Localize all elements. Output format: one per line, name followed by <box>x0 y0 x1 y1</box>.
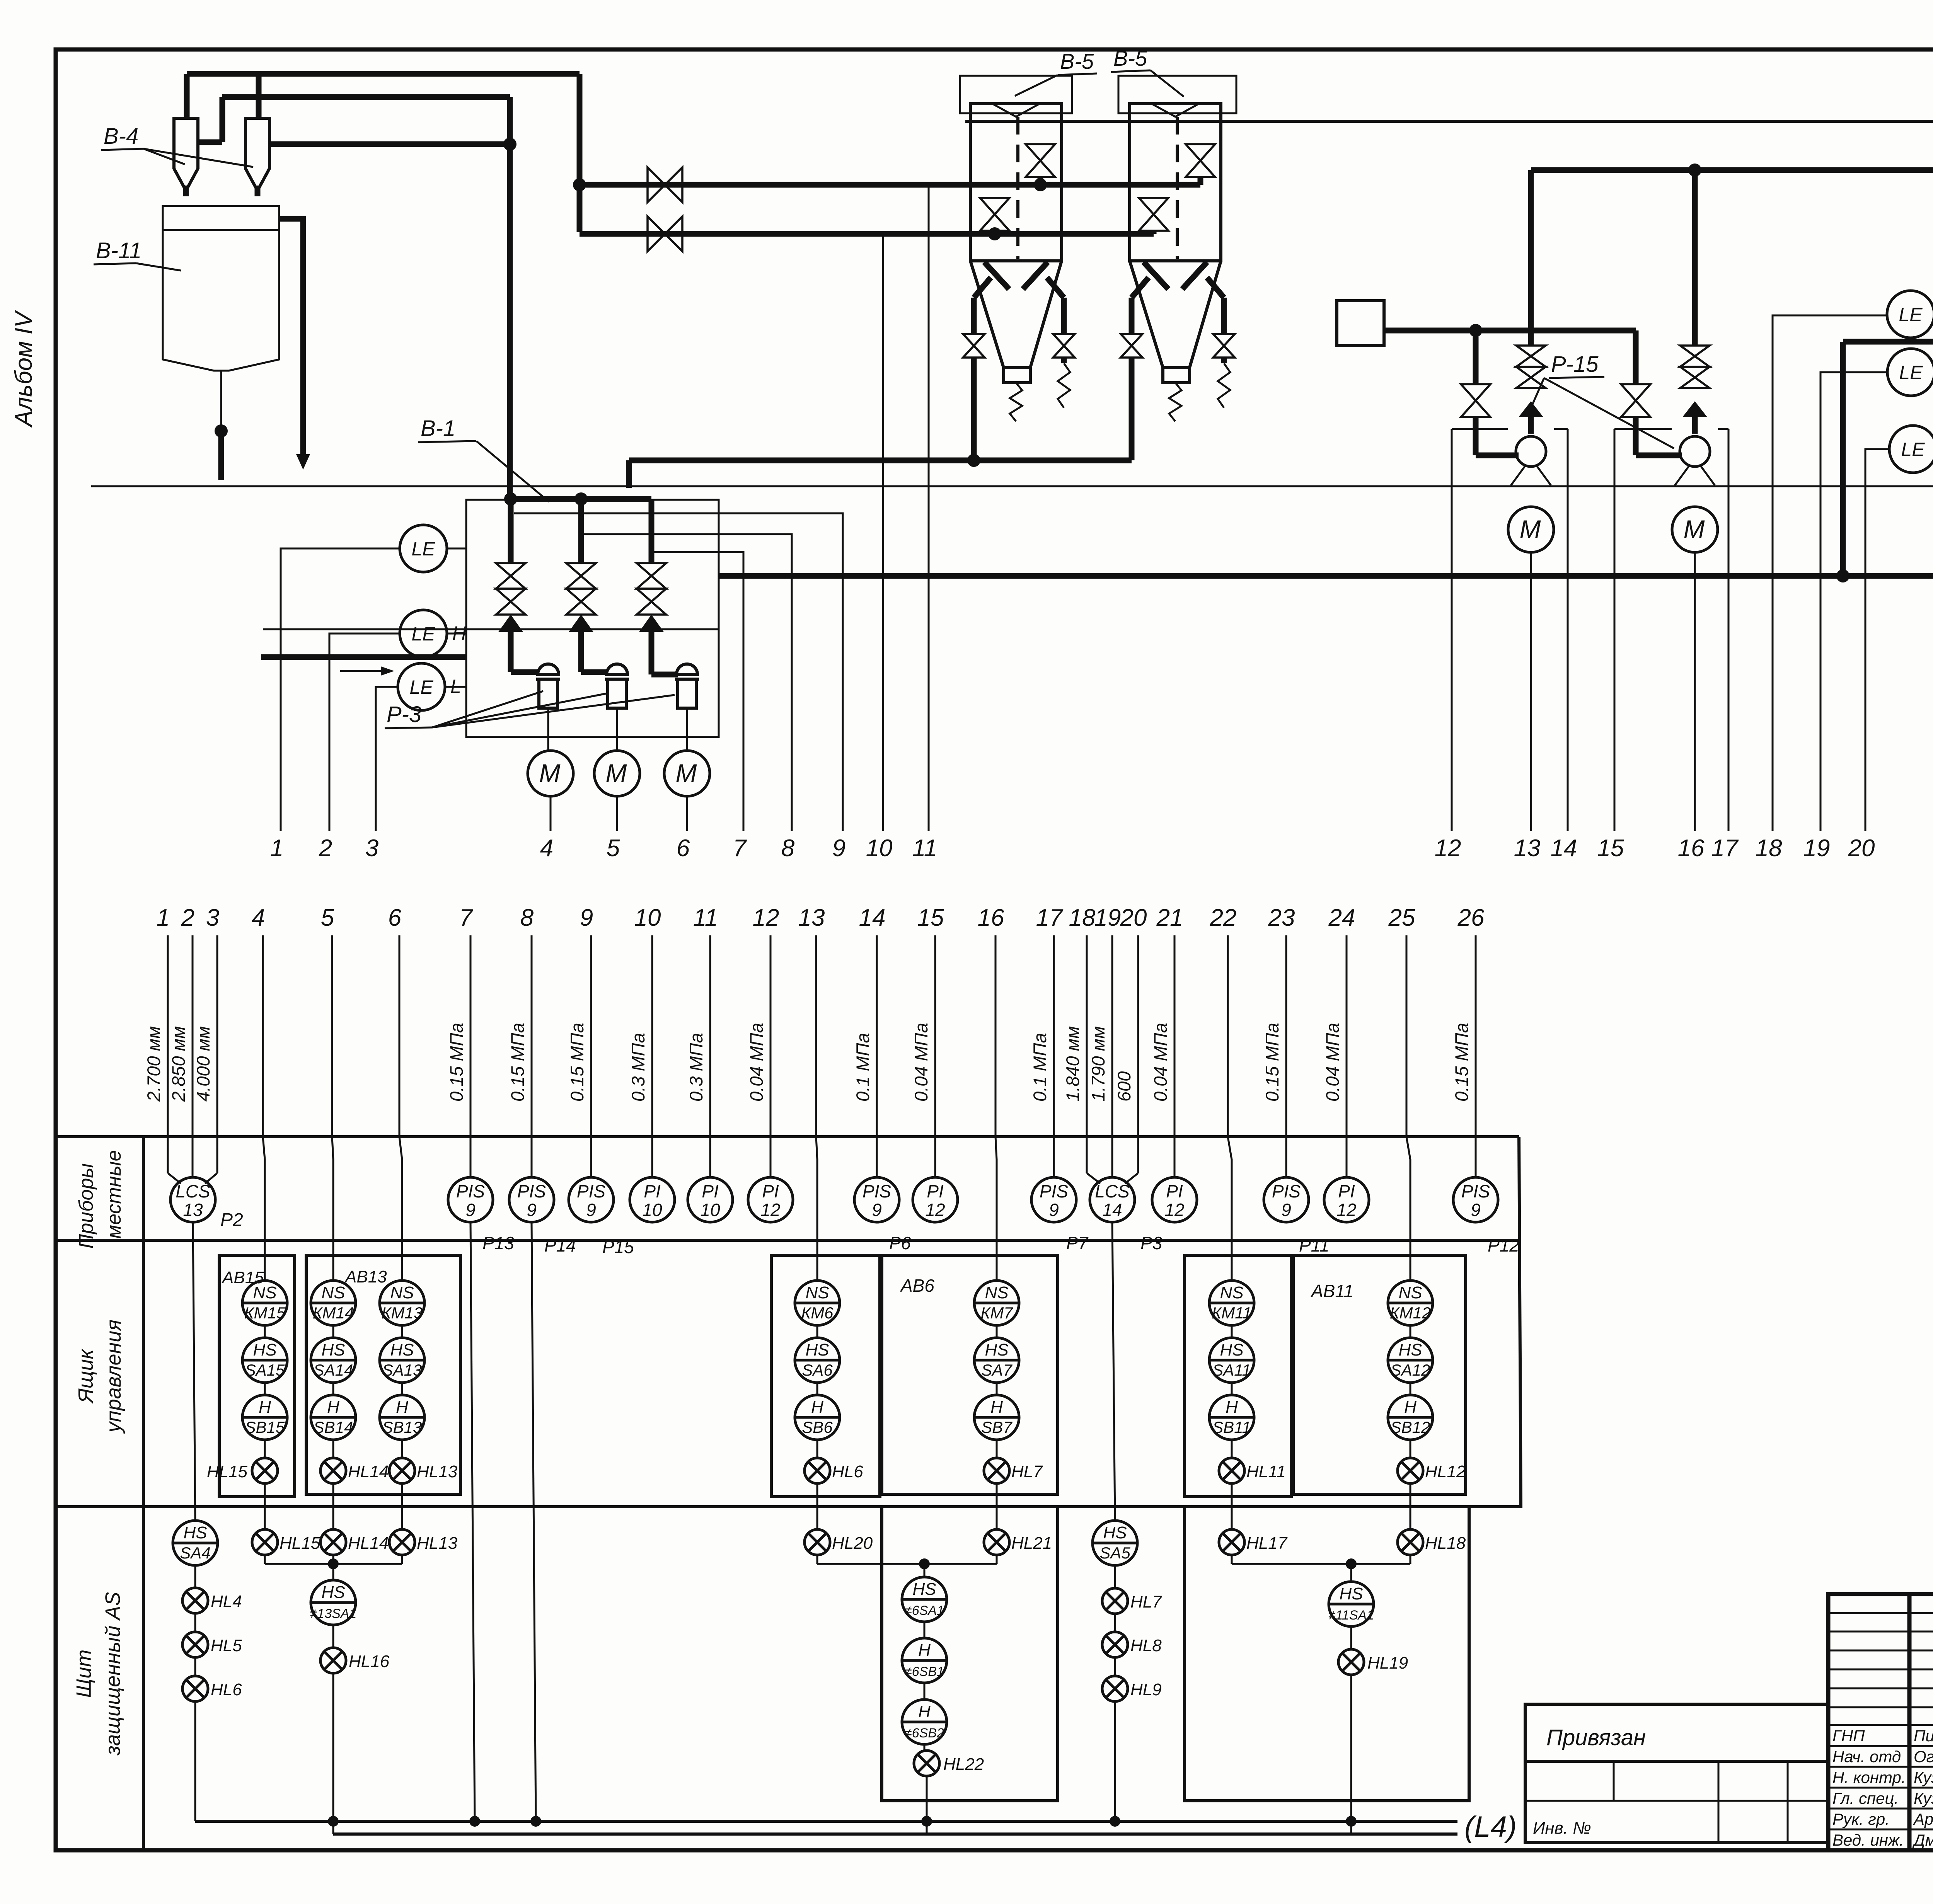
svg-text:HL15: HL15 <box>280 1534 320 1553</box>
svg-text:HL6: HL6 <box>211 1680 242 1699</box>
svg-text:PIS: PIS <box>1461 1181 1490 1201</box>
svg-text:LE: LE <box>411 538 435 560</box>
svg-text:5: 5 <box>607 835 620 862</box>
svg-text:HL13: HL13 <box>417 1534 458 1553</box>
svg-text:0.04 МПа: 0.04 МПа <box>1150 1023 1171 1102</box>
svg-text:Р2: Р2 <box>220 1210 243 1230</box>
svg-text:22: 22 <box>1210 904 1237 931</box>
svg-text:Р15: Р15 <box>602 1237 634 1257</box>
svg-text:24: 24 <box>1328 904 1355 931</box>
svg-text:Вед. инж.: Вед. инж. <box>1832 1831 1904 1849</box>
svg-text:Приборы: Приборы <box>75 1163 97 1249</box>
svg-text:10: 10 <box>642 1200 662 1220</box>
svg-text:местные: местные <box>103 1150 125 1238</box>
svg-text:18: 18 <box>1756 835 1782 862</box>
svg-text:HL7: HL7 <box>1130 1592 1162 1611</box>
svg-text:Нач. отд: Нач. отд <box>1832 1747 1901 1766</box>
svg-text:HL15: HL15 <box>207 1462 248 1481</box>
svg-text:Н: Н <box>259 1398 271 1417</box>
svg-text:2.850 мм: 2.850 мм <box>168 1026 189 1102</box>
svg-text:HL4: HL4 <box>211 1592 242 1611</box>
svg-text:1: 1 <box>157 904 170 931</box>
svg-text:КМ7: КМ7 <box>980 1304 1013 1322</box>
svg-text:Н: Н <box>918 1641 931 1660</box>
svg-text:NS: NS <box>1220 1283 1243 1302</box>
svg-text:2: 2 <box>319 835 332 862</box>
svg-text:HL17: HL17 <box>1246 1534 1288 1553</box>
svg-text:3: 3 <box>365 835 378 862</box>
svg-text:АВ13: АВ13 <box>344 1267 387 1286</box>
svg-text:0.04 МПа: 0.04 МПа <box>746 1023 767 1102</box>
svg-text:4: 4 <box>252 904 265 931</box>
svg-text:Привязан: Привязан <box>1546 1725 1646 1750</box>
svg-text:0.3 МПа: 0.3 МПа <box>686 1033 706 1102</box>
svg-text:КМ15: КМ15 <box>244 1304 286 1322</box>
svg-text:LE: LE <box>411 623 435 645</box>
svg-text:23: 23 <box>1268 904 1295 931</box>
svg-text:Щит: Щит <box>72 1650 95 1698</box>
svg-text:9: 9 <box>1471 1200 1481 1220</box>
svg-text:HS: HS <box>183 1523 207 1542</box>
svg-text:NS: NS <box>805 1283 829 1302</box>
svg-text:Р-15: Р-15 <box>1551 352 1599 377</box>
svg-text:HS: HS <box>805 1340 829 1359</box>
svg-text:9: 9 <box>1049 1200 1059 1220</box>
svg-text:КМ14: КМ14 <box>313 1304 354 1322</box>
svg-text:Н: Н <box>1404 1398 1417 1417</box>
svg-text:HL19: HL19 <box>1367 1654 1408 1672</box>
svg-text:SВ11: SВ11 <box>1212 1418 1251 1436</box>
svg-text:LCS: LCS <box>176 1181 210 1201</box>
svg-text:PI: PI <box>1338 1181 1355 1201</box>
svg-text:Р13: Р13 <box>482 1233 514 1253</box>
svg-text:M: M <box>676 759 697 787</box>
svg-text:HS: HS <box>1339 1584 1363 1603</box>
svg-text:Н: Н <box>396 1398 408 1417</box>
svg-text:4: 4 <box>540 835 553 862</box>
svg-text:0.15 МПа: 0.15 МПа <box>446 1023 467 1102</box>
svg-text:14: 14 <box>1551 835 1577 862</box>
svg-text:В-4: В-4 <box>104 124 138 149</box>
svg-text:14: 14 <box>859 904 886 931</box>
svg-text:0.15 МПа: 0.15 МПа <box>507 1023 528 1102</box>
svg-text:HS: HS <box>1103 1523 1127 1542</box>
svg-text:(L4): (L4) <box>1464 1810 1517 1843</box>
svg-text:LE: LE <box>1901 439 1925 460</box>
svg-text:HL21: HL21 <box>1011 1534 1052 1553</box>
svg-text:0.1 МПа: 0.1 МПа <box>852 1033 873 1102</box>
svg-text:Р11: Р11 <box>1299 1235 1329 1255</box>
svg-text:8: 8 <box>781 835 795 862</box>
svg-text:NS: NS <box>253 1283 276 1302</box>
svg-text:2: 2 <box>181 904 194 931</box>
svg-text:18: 18 <box>1069 904 1096 931</box>
svg-text:20: 20 <box>1848 835 1875 862</box>
svg-text:HS: HS <box>985 1340 1008 1359</box>
svg-text:19: 19 <box>1803 835 1830 862</box>
svg-text:13: 13 <box>183 1200 203 1220</box>
svg-text:Р6: Р6 <box>889 1233 911 1253</box>
svg-text:4.000 мм: 4.000 мм <box>193 1026 213 1102</box>
svg-text:HL5: HL5 <box>211 1636 242 1655</box>
svg-text:9: 9 <box>872 1200 882 1220</box>
svg-text:HL20: HL20 <box>832 1534 873 1553</box>
svg-text:NS: NS <box>321 1283 345 1302</box>
svg-text:Р7: Р7 <box>1066 1233 1089 1253</box>
svg-text:25: 25 <box>1388 904 1415 931</box>
svg-text:0.04 МПа: 0.04 МПа <box>911 1023 931 1102</box>
svg-text:0.3 МПа: 0.3 МПа <box>628 1033 648 1102</box>
svg-text:АВ6: АВ6 <box>900 1276 934 1296</box>
svg-text:19: 19 <box>1094 904 1121 931</box>
svg-text:0.15 МПа: 0.15 МПа <box>567 1023 587 1102</box>
svg-text:КМ13: КМ13 <box>382 1304 423 1322</box>
svg-text:5: 5 <box>321 904 334 931</box>
svg-text:В-11: В-11 <box>96 238 141 263</box>
svg-text:SВ13: SВ13 <box>382 1418 422 1436</box>
svg-text:9: 9 <box>1281 1200 1291 1220</box>
svg-text:Дмитриева: Дмитриева <box>1912 1831 1933 1849</box>
svg-text:≠6SВ2: ≠6SВ2 <box>905 1726 944 1741</box>
svg-text:АВ11: АВ11 <box>1310 1281 1353 1301</box>
svg-text:600: 600 <box>1114 1071 1134 1102</box>
svg-text:SA14: SA14 <box>314 1361 353 1379</box>
svg-text:HS: HS <box>390 1340 414 1359</box>
svg-text:HS: HS <box>912 1580 936 1599</box>
svg-text:КМ12: КМ12 <box>1390 1304 1431 1322</box>
svg-text:1: 1 <box>270 835 283 862</box>
svg-text:11: 11 <box>693 904 718 931</box>
svg-text:Пивторак: Пивторак <box>1914 1727 1933 1745</box>
svg-text:12: 12 <box>1435 835 1461 862</box>
svg-text:12: 12 <box>760 1200 780 1220</box>
svg-text:PI: PI <box>927 1181 944 1201</box>
svg-text:HL14: HL14 <box>348 1462 389 1481</box>
svg-text:Р3: Р3 <box>1140 1233 1163 1253</box>
svg-text:HL6: HL6 <box>832 1462 863 1481</box>
svg-text:HL14: HL14 <box>348 1534 389 1553</box>
svg-text:SВ7: SВ7 <box>981 1418 1013 1436</box>
svg-text:Н. контр.: Н. контр. <box>1832 1768 1906 1786</box>
svg-text:12: 12 <box>1164 1200 1184 1220</box>
svg-text:6: 6 <box>677 835 690 862</box>
svg-text:Огурцов: Огурцов <box>1914 1747 1933 1766</box>
svg-text:Арнаутова: Арнаутова <box>1913 1810 1933 1828</box>
svg-text:LE: LE <box>409 676 433 698</box>
svg-text:≠13SA1: ≠13SA1 <box>310 1606 357 1621</box>
svg-text:NS: NS <box>1398 1283 1422 1302</box>
svg-text:HL12: HL12 <box>1425 1462 1466 1481</box>
svg-text:защищенный АS: защищенный АS <box>101 1592 124 1756</box>
svg-text:Р-3: Р-3 <box>387 702 421 727</box>
svg-text:PI: PI <box>762 1181 779 1201</box>
svg-text:управления: управления <box>102 1320 125 1434</box>
svg-text:В-5: В-5 <box>1060 49 1094 73</box>
svg-text:ГНП: ГНП <box>1832 1727 1865 1745</box>
svg-text:9: 9 <box>527 1200 537 1220</box>
svg-text:HS: HS <box>321 1340 345 1359</box>
svg-text:SВ15: SВ15 <box>245 1418 285 1436</box>
svg-text:HS: HS <box>1398 1340 1422 1359</box>
svg-text:SВ12: SВ12 <box>1391 1418 1430 1436</box>
svg-text:В-5: В-5 <box>1113 46 1147 70</box>
svg-text:M: M <box>606 759 627 787</box>
svg-text:7: 7 <box>459 904 474 931</box>
svg-text:12: 12 <box>1336 1200 1356 1220</box>
svg-text:Кузнецов: Кузнецов <box>1914 1789 1933 1807</box>
svg-text:9: 9 <box>832 835 845 862</box>
svg-text:HL13: HL13 <box>417 1462 458 1481</box>
svg-text:2.700 мм: 2.700 мм <box>143 1026 164 1102</box>
svg-text:17: 17 <box>1036 904 1064 931</box>
svg-text:6: 6 <box>388 904 402 931</box>
svg-text:0.1 МПа: 0.1 МПа <box>1030 1033 1050 1102</box>
svg-text:Р14: Р14 <box>544 1235 576 1255</box>
svg-text:≠6SA1: ≠6SA1 <box>905 1603 944 1618</box>
svg-text:0.15 МПа: 0.15 МПа <box>1262 1023 1282 1102</box>
svg-text:Н: Н <box>990 1398 1003 1417</box>
svg-text:Гл. спец.: Гл. спец. <box>1832 1789 1899 1807</box>
svg-text:SA15: SA15 <box>245 1361 285 1379</box>
svg-text:SВ14: SВ14 <box>314 1418 353 1436</box>
svg-text:HL18: HL18 <box>1425 1534 1466 1553</box>
svg-text:21: 21 <box>1156 904 1183 931</box>
svg-text:15: 15 <box>1597 835 1624 862</box>
svg-text:17: 17 <box>1711 835 1739 862</box>
svg-text:Ящик: Ящик <box>74 1348 97 1404</box>
svg-text:10: 10 <box>866 835 893 862</box>
svg-text:26: 26 <box>1457 904 1485 931</box>
svg-text:LE: LE <box>1899 362 1923 383</box>
svg-text:КМ11: КМ11 <box>1212 1304 1251 1322</box>
svg-text:20: 20 <box>1120 904 1147 931</box>
svg-text:В-1: В-1 <box>421 416 455 441</box>
svg-text:PIS: PIS <box>456 1181 485 1201</box>
svg-text:Р12: Р12 <box>1488 1235 1519 1255</box>
svg-text:1.840 мм: 1.840 мм <box>1062 1026 1083 1102</box>
svg-text:HS: HS <box>253 1340 276 1359</box>
svg-text:11: 11 <box>912 835 937 862</box>
svg-text:LCS: LCS <box>1095 1181 1130 1201</box>
svg-text:16: 16 <box>1678 835 1705 862</box>
svg-text:9: 9 <box>465 1200 476 1220</box>
svg-text:M: M <box>539 759 561 787</box>
svg-text:10: 10 <box>700 1200 720 1220</box>
svg-text:Н: Н <box>327 1398 339 1417</box>
svg-text:КМ6: КМ6 <box>801 1304 834 1322</box>
svg-text:Н: Н <box>918 1702 931 1721</box>
svg-text:SA13: SA13 <box>382 1361 422 1379</box>
svg-text:12: 12 <box>925 1200 945 1220</box>
svg-text:SВ6: SВ6 <box>802 1418 833 1436</box>
svg-text:SA4: SA4 <box>180 1544 210 1562</box>
svg-text:PIS: PIS <box>863 1181 891 1201</box>
svg-text:SA11: SA11 <box>1212 1361 1251 1379</box>
svg-text:Рук. гр.: Рук. гр. <box>1832 1810 1890 1828</box>
svg-text:PIS: PIS <box>1040 1181 1068 1201</box>
svg-text:Инв. №: Инв. № <box>1533 1819 1591 1838</box>
svg-text:HL11: HL11 <box>1246 1462 1286 1481</box>
svg-text:PIS: PIS <box>1272 1181 1301 1201</box>
svg-text:10: 10 <box>634 904 661 931</box>
svg-text:9: 9 <box>580 904 593 931</box>
svg-text:LE: LE <box>1899 304 1923 325</box>
svg-text:SA7: SA7 <box>981 1361 1013 1379</box>
svg-text:HS: HS <box>321 1583 345 1602</box>
svg-text:HL8: HL8 <box>1130 1636 1162 1655</box>
svg-text:≠6SВ1: ≠6SВ1 <box>905 1664 944 1679</box>
svg-text:Кузнецов: Кузнецов <box>1914 1768 1933 1786</box>
svg-text:15: 15 <box>917 904 944 931</box>
svg-text:NS: NS <box>985 1283 1008 1302</box>
svg-text:HL22: HL22 <box>943 1755 984 1774</box>
svg-text:Н: Н <box>811 1398 823 1417</box>
svg-text:PI: PI <box>644 1181 661 1201</box>
svg-text:PI: PI <box>702 1181 719 1201</box>
svg-text:SA5: SA5 <box>1099 1544 1130 1562</box>
svg-text:PI: PI <box>1166 1181 1183 1201</box>
svg-text:3: 3 <box>206 904 219 931</box>
svg-text:Н: Н <box>1226 1398 1238 1417</box>
svg-text:M: M <box>1520 515 1541 543</box>
svg-text:Альбом IV: Альбом IV <box>10 310 37 428</box>
svg-text:16: 16 <box>978 904 1004 931</box>
svg-text:HL16: HL16 <box>349 1652 390 1671</box>
svg-text:1.790 мм: 1.790 мм <box>1088 1026 1108 1102</box>
svg-text:13: 13 <box>798 904 825 931</box>
svg-text:NS: NS <box>390 1283 414 1302</box>
svg-text:M: M <box>1684 515 1705 543</box>
svg-text:9: 9 <box>586 1200 596 1220</box>
svg-text:0.15 МПа: 0.15 МПа <box>1451 1023 1472 1102</box>
svg-text:0.04 МПа: 0.04 МПа <box>1322 1023 1343 1102</box>
svg-text:PIS: PIS <box>577 1181 605 1201</box>
svg-text:13: 13 <box>1514 835 1541 862</box>
svg-text:SA6: SA6 <box>802 1361 833 1379</box>
svg-text:PIS: PIS <box>517 1181 546 1201</box>
svg-text:7: 7 <box>733 835 747 862</box>
svg-text:HL7: HL7 <box>1011 1462 1043 1481</box>
svg-text:SA12: SA12 <box>1391 1361 1430 1379</box>
svg-text:≠11SA1: ≠11SA1 <box>1328 1608 1374 1623</box>
svg-text:12: 12 <box>753 904 779 931</box>
svg-text:HL9: HL9 <box>1130 1680 1162 1699</box>
svg-text:14: 14 <box>1102 1200 1122 1220</box>
svg-text:HS: HS <box>1220 1340 1243 1359</box>
svg-text:8: 8 <box>520 904 534 931</box>
